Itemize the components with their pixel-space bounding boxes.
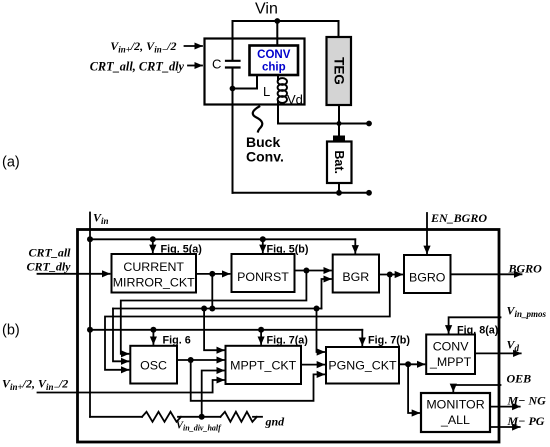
wire R2 to gnd [253, 416, 262, 418]
svg-text:Vin: Vin [255, 1, 278, 18]
wire PONRST feedback line B [121, 271, 307, 354]
svg-text:Bat.: Bat. [332, 150, 346, 174]
node Vin junction dot [274, 18, 280, 24]
svg-text:Conv.: Conv. [246, 149, 284, 165]
svg-text:MIRROR_CKT: MIRROR_CKT [113, 276, 195, 290]
svg-text:CURRENT: CURRENT [123, 260, 184, 274]
svg-text:MPPT_CKT: MPPT_CKT [230, 359, 297, 373]
wire line C horizontal [113, 308, 322, 310]
node line C dot bias to PGNG [314, 306, 320, 312]
svg-text:EN_BGRO: EN_BGRO [430, 211, 487, 225]
svg-text:Vd: Vd [287, 92, 303, 107]
svg-text:CRT_all: CRT_all [28, 246, 71, 260]
svg-text:M− PG: M− PG [507, 414, 545, 428]
svg-text:MONITOR: MONITOR [426, 398, 484, 412]
wire Vd output [475, 352, 521, 354]
svg-text:PGNG_CKT: PGNG_CKT [328, 359, 397, 373]
wire Vin_pmos into CONV_MPPT [449, 317, 501, 333]
svg-text:CRT_dly: CRT_dly [27, 260, 72, 274]
svg-text:CRT_all, CRT_dly: CRT_all, CRT_dly [90, 60, 185, 74]
node rail1 dot Fig5a [150, 236, 156, 242]
arrow input 2 into buck box [188, 65, 202, 67]
block U6 MPPT_CKT [226, 346, 302, 384]
wire CURRENT MIRROR output [196, 273, 230, 275]
block U9 MONITOR_ALL [421, 393, 490, 432]
node terminal dot bottom rail [366, 190, 372, 196]
arrow Fig 7(a) into MPPT top [260, 330, 262, 344]
svg-text:OSC: OSC [140, 359, 167, 373]
arrow rail1 end into BGR top [354, 239, 356, 253]
wire line C right end up into BGR input2 [322, 279, 332, 309]
node junction dot bottom rail [336, 190, 342, 196]
svg-text:chip: chip [262, 62, 286, 74]
wire OSC output to MPPT [177, 359, 224, 361]
wire CONV chip left leg to junction [233, 75, 258, 89]
node Vin rail2 junction dot [87, 327, 93, 333]
node OSC output dot [188, 357, 194, 363]
block U2 PONRST [232, 254, 295, 292]
node Vin rail1 junction dot [87, 236, 93, 242]
battery terminal black cap [333, 136, 345, 142]
wire PGNG branch down to MONITOR [408, 364, 419, 413]
arrow Fig 5(b) into PONRST top [262, 239, 264, 252]
arrow Fig 6 into OSC top [152, 330, 154, 344]
block U4 BGRO [404, 255, 451, 293]
arrow EN_BGRO into BGRO top [426, 213, 428, 253]
svg-text:OEB: OEB [507, 372, 532, 386]
arrow Fig 7(b) rail2 end into PGNG top [361, 330, 363, 345]
wire bias branch down to MPPT input1 [204, 309, 224, 351]
block U8 CONV_MPPT [426, 335, 475, 375]
svg-text:TEG: TEG [332, 57, 347, 85]
wire bias branch down to PGNG input1 [317, 309, 325, 353]
svg-text:Fig. 7(a): Fig. 7(a) [267, 335, 309, 347]
wire bottom rail part a [233, 192, 370, 194]
node CM output dot [209, 271, 215, 277]
wire CM output branch down to bias bus [211, 274, 213, 309]
svg-text:L: L [263, 84, 270, 99]
node Vin_div_half dot [199, 414, 205, 420]
wire M-PG output [490, 426, 520, 428]
block U5 OSC [130, 346, 177, 384]
node PONRST output dot [303, 268, 309, 274]
node line C dot bias to MPPT [201, 306, 207, 312]
resistor R2 [220, 412, 257, 422]
wire battery bottom [338, 183, 340, 193]
wire R1 to R2 [178, 416, 220, 418]
wire OEB into MONITOR top [453, 385, 500, 391]
svg-text:CONV: CONV [433, 340, 470, 354]
chip outer box (part b) [78, 230, 500, 443]
wire BGR output to BGRO [379, 274, 402, 276]
node junction dot below capacitor [230, 86, 236, 92]
TEG block [327, 37, 352, 105]
svg-text:CONV: CONV [257, 49, 291, 61]
node rail1 dot Fig5b [260, 236, 266, 242]
wire top rail part a [233, 20, 339, 22]
node BGR output dot [387, 272, 393, 278]
wire Vin dot to CONV chip top [276, 21, 278, 46]
capacitor C plates [226, 61, 240, 68]
svg-text:PONRST: PONRST [237, 270, 289, 284]
wire BGRO output [451, 273, 522, 275]
node rail2 dot Fig6 [150, 327, 156, 333]
wire Vin stub into box [89, 213, 91, 240]
wire bias bus line C [113, 309, 129, 362]
wire Vin rail 1 [90, 238, 355, 240]
svg-text:BGR: BGR [342, 270, 369, 284]
wire Vin rail down to capacitor [232, 21, 234, 60]
svg-text:Fig. 7(b): Fig. 7(b) [368, 335, 410, 347]
wire M-NG output [490, 406, 520, 408]
node PGNG output dot [405, 361, 411, 367]
node rail2 dot Fig7a [258, 327, 264, 333]
wire divider feed from Vin trunk [90, 416, 142, 418]
svg-text:BGRO: BGRO [409, 271, 446, 285]
brace squiggle buck conv pointer [253, 107, 263, 132]
block U1 CURRENT MIRROR_CKT [112, 254, 197, 293]
op chip U1 CONV chip box [250, 46, 299, 76]
wire capacitor bottom to junction [232, 68, 234, 89]
wire junction down to bottom rail [232, 89, 234, 193]
svg-text:Fig. 6: Fig. 6 [163, 335, 191, 347]
wire inductor to battery rail [278, 123, 369, 125]
block U7 PGNG_CKT [326, 347, 399, 384]
wire TEG bottom to battery terminal [338, 105, 340, 136]
block U3 BGR [333, 255, 379, 293]
wire MPPT output to PGNG [301, 364, 324, 366]
buck converter outer box [205, 39, 305, 105]
wire BGR feedback line D [105, 275, 390, 370]
svg-text:C: C [212, 57, 221, 72]
svg-text:M− NG: M− NG [507, 394, 547, 408]
arrow Fig 5(a) into CURRENT MIRROR top [152, 239, 154, 252]
wire Vin half input line [38, 380, 225, 393]
node line C dot from CM [209, 306, 215, 312]
wire Vin vertical trunk [89, 239, 91, 416]
wire OSC clock branch to PGNG [191, 360, 325, 401]
svg-text:BGRO: BGRO [508, 262, 543, 276]
inductor L coil [277, 75, 279, 124]
resistor R1 [142, 412, 181, 422]
wire PONRST output to BGR [295, 270, 332, 272]
battery Bat. block [327, 142, 352, 184]
wire TEG top [338, 21, 340, 37]
svg-text:_MPPT: _MPPT [429, 355, 472, 369]
svg-text:(a): (a) [2, 155, 20, 171]
svg-text:_ALL: _ALL [440, 413, 470, 427]
node terminal dot mid rail [366, 121, 372, 127]
arrow CRT input into CURRENT MIRROR [38, 273, 110, 275]
wire Vin rail 2 [90, 329, 362, 331]
node junction dot TEG-battery [337, 121, 342, 126]
wire PGNG output to CONV_MPPT [399, 363, 425, 365]
arrow input 1 into buck box [185, 45, 203, 47]
wire Vin_div_half up to MPPT input3 [202, 371, 224, 417]
svg-text:(b): (b) [2, 323, 20, 339]
svg-text:gnd: gnd [265, 415, 286, 429]
